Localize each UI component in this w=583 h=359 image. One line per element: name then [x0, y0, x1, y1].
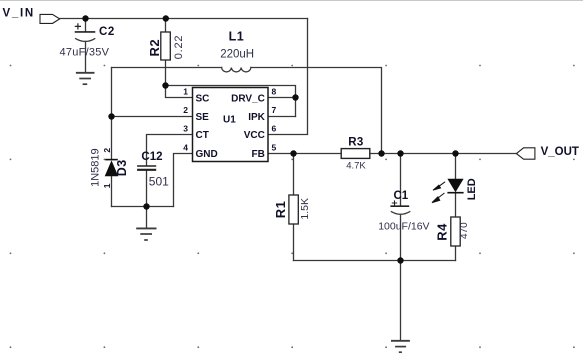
svg-text:LED: LED — [466, 178, 478, 200]
svg-text:C1: C1 — [394, 190, 409, 202]
svg-text:2: 2 — [183, 105, 188, 115]
wire: C1 top lead — [400, 154, 402, 207]
wire: R4 bottom lead — [455, 246, 457, 261]
svg-text:R4: R4 — [435, 223, 450, 241]
svg-text:R3: R3 — [348, 136, 364, 148]
junction node: pin 8 wire junction — [292, 94, 298, 100]
svg-text:6: 6 — [272, 123, 277, 133]
resistor R4 — [451, 217, 460, 246]
svg-text:L1: L1 — [229, 30, 245, 44]
LED arrow 2 — [432, 193, 444, 203]
resistor R1 — [289, 195, 298, 224]
wire: switch node vertical to SE pin 2 and D3 — [111, 68, 113, 117]
svg-text:C2: C2 — [99, 26, 115, 38]
wire: D3 bottom lead to ground rail — [111, 176, 113, 206]
svg-text:8: 8 — [272, 87, 277, 97]
wire: LED top lead — [455, 154, 457, 179]
svg-text:1.5K: 1.5K — [299, 198, 311, 220]
wire: pin 2 SE — [112, 116, 193, 118]
wire: pin 7 IPK — [268, 116, 296, 118]
svg-text:C12: C12 — [141, 151, 162, 163]
wire: C1 bottom lead — [400, 216, 402, 261]
junction node: C1 at output line — [397, 150, 403, 156]
LED arrow 1 — [433, 182, 445, 190]
svg-text:2: 2 — [102, 148, 112, 153]
svg-text:1: 1 — [183, 87, 188, 97]
svg-text:47uF/35V: 47uF/35V — [60, 47, 110, 59]
svg-text:1: 1 — [102, 183, 112, 188]
resistor R3 — [341, 149, 370, 159]
svg-text:VCC: VCC — [244, 130, 265, 141]
junction node: C2 at top rail — [82, 15, 88, 21]
diode D3 cathode bar — [105, 159, 118, 161]
connector V_OUT — [516, 148, 535, 159]
wire: ground stem below bottom rail — [400, 261, 402, 341]
wire: R1 bottom lead to bottom rail — [293, 224, 295, 261]
ground (C12) — [136, 228, 156, 240]
wire: C12 ground stem — [146, 207, 148, 229]
wire: C2 top lead — [85, 19, 87, 32]
svg-text:DRV_C: DRV_C — [231, 93, 265, 104]
svg-text:R1: R1 — [273, 201, 288, 219]
diode D3 triangle — [105, 160, 119, 176]
wire: ground rail up to pin 4 GND — [174, 154, 193, 207]
svg-text:SE: SE — [196, 112, 210, 123]
capacitor C2 curved plate — [75, 38, 95, 41]
ground (C2) — [76, 73, 95, 84]
capacitor C2 top plate — [75, 31, 96, 33]
svg-text:220uH: 220uH — [220, 49, 254, 61]
wire: L1 line right segment down to output — [251, 68, 382, 154]
IC U1 body — [193, 88, 269, 162]
wire: R1 top lead — [293, 154, 295, 196]
capacitor C12 bottom plate — [137, 169, 156, 171]
svg-text:R2: R2 — [147, 39, 162, 57]
capacitor C12 top plate — [137, 165, 156, 167]
junction node: SE/D3 node — [108, 113, 114, 119]
capacitor C1 curved plate — [391, 211, 411, 214]
junction node: R2 at top rail — [163, 15, 169, 21]
junction node: C1 at bottom rail — [397, 257, 403, 263]
wire: ground rail under D3/C12 — [112, 206, 174, 208]
svg-text:D3: D3 — [115, 159, 129, 176]
wire: C2 bottom lead to ground — [85, 42, 87, 73]
junction node: LED at output line — [452, 150, 458, 156]
LED D triangle — [447, 179, 463, 192]
wire: C12 bottom lead — [146, 170, 148, 207]
wire: R3 right to V_OUT connector — [370, 153, 517, 155]
wire: node to pin 1 SC — [166, 86, 193, 98]
wire: pin 3 CT to C12 — [147, 135, 193, 166]
svg-text:3: 3 — [183, 123, 188, 133]
wire: V_IN top rail — [60, 18, 308, 20]
svg-text:470: 470 — [459, 222, 470, 239]
capacitor C1 plus sign — [392, 200, 397, 205]
svg-text:100uF/16V: 100uF/16V — [378, 221, 429, 233]
svg-text:501: 501 — [149, 175, 169, 189]
junction node: C12 at ground rail — [143, 203, 149, 209]
svg-text:U1: U1 — [223, 114, 236, 125]
svg-text:4: 4 — [183, 143, 188, 153]
resistor R2 — [161, 32, 171, 60]
LED cathode bar — [447, 192, 463, 194]
junction node: R1 at FB line — [290, 150, 296, 156]
wire: bottom rail — [294, 260, 456, 262]
svg-text:GND: GND — [196, 149, 218, 160]
capacitor C2 plus sign — [75, 23, 81, 29]
connector V_IN — [40, 14, 60, 23]
svg-text:V_IN: V_IN — [3, 8, 35, 20]
svg-text:V_OUT: V_OUT — [541, 146, 579, 158]
inductor L1 coil — [222, 68, 251, 72]
wire: FB output line pin5 to V_OUT — [268, 153, 341, 155]
wire: D3 top lead — [111, 117, 113, 160]
junction node: R2/SC/drive node — [162, 82, 168, 88]
wire: LED cathode to R4 — [455, 193, 457, 217]
wire: R2 bottom lead down to node — [165, 60, 167, 86]
wire: pin 8 DRV_C — [268, 97, 296, 99]
junction node: L1 at output line — [378, 150, 384, 156]
scan artifact dot grid — [10, 65, 575, 349]
svg-text:SC: SC — [196, 93, 210, 104]
svg-text:4.7K: 4.7K — [346, 161, 366, 172]
svg-text:0.22: 0.22 — [173, 35, 185, 60]
top edge artifact line — [0, 0, 583, 2]
svg-text:7: 7 — [272, 105, 277, 115]
svg-text:5: 5 — [272, 143, 277, 153]
wire: R2 top lead — [165, 19, 167, 33]
svg-text:CT: CT — [196, 130, 209, 141]
wire: L1 line left segment — [112, 67, 222, 69]
wire: node across to pins 8/7 — [166, 86, 296, 117]
capacitor C1 top plate — [390, 205, 409, 207]
wire: VCC vertical from top rail to pin 6 — [268, 19, 308, 135]
ground (main) — [391, 341, 410, 352]
svg-text:FB: FB — [252, 149, 265, 160]
svg-text:1N5819: 1N5819 — [90, 148, 102, 187]
svg-text:IPK: IPK — [248, 112, 265, 123]
